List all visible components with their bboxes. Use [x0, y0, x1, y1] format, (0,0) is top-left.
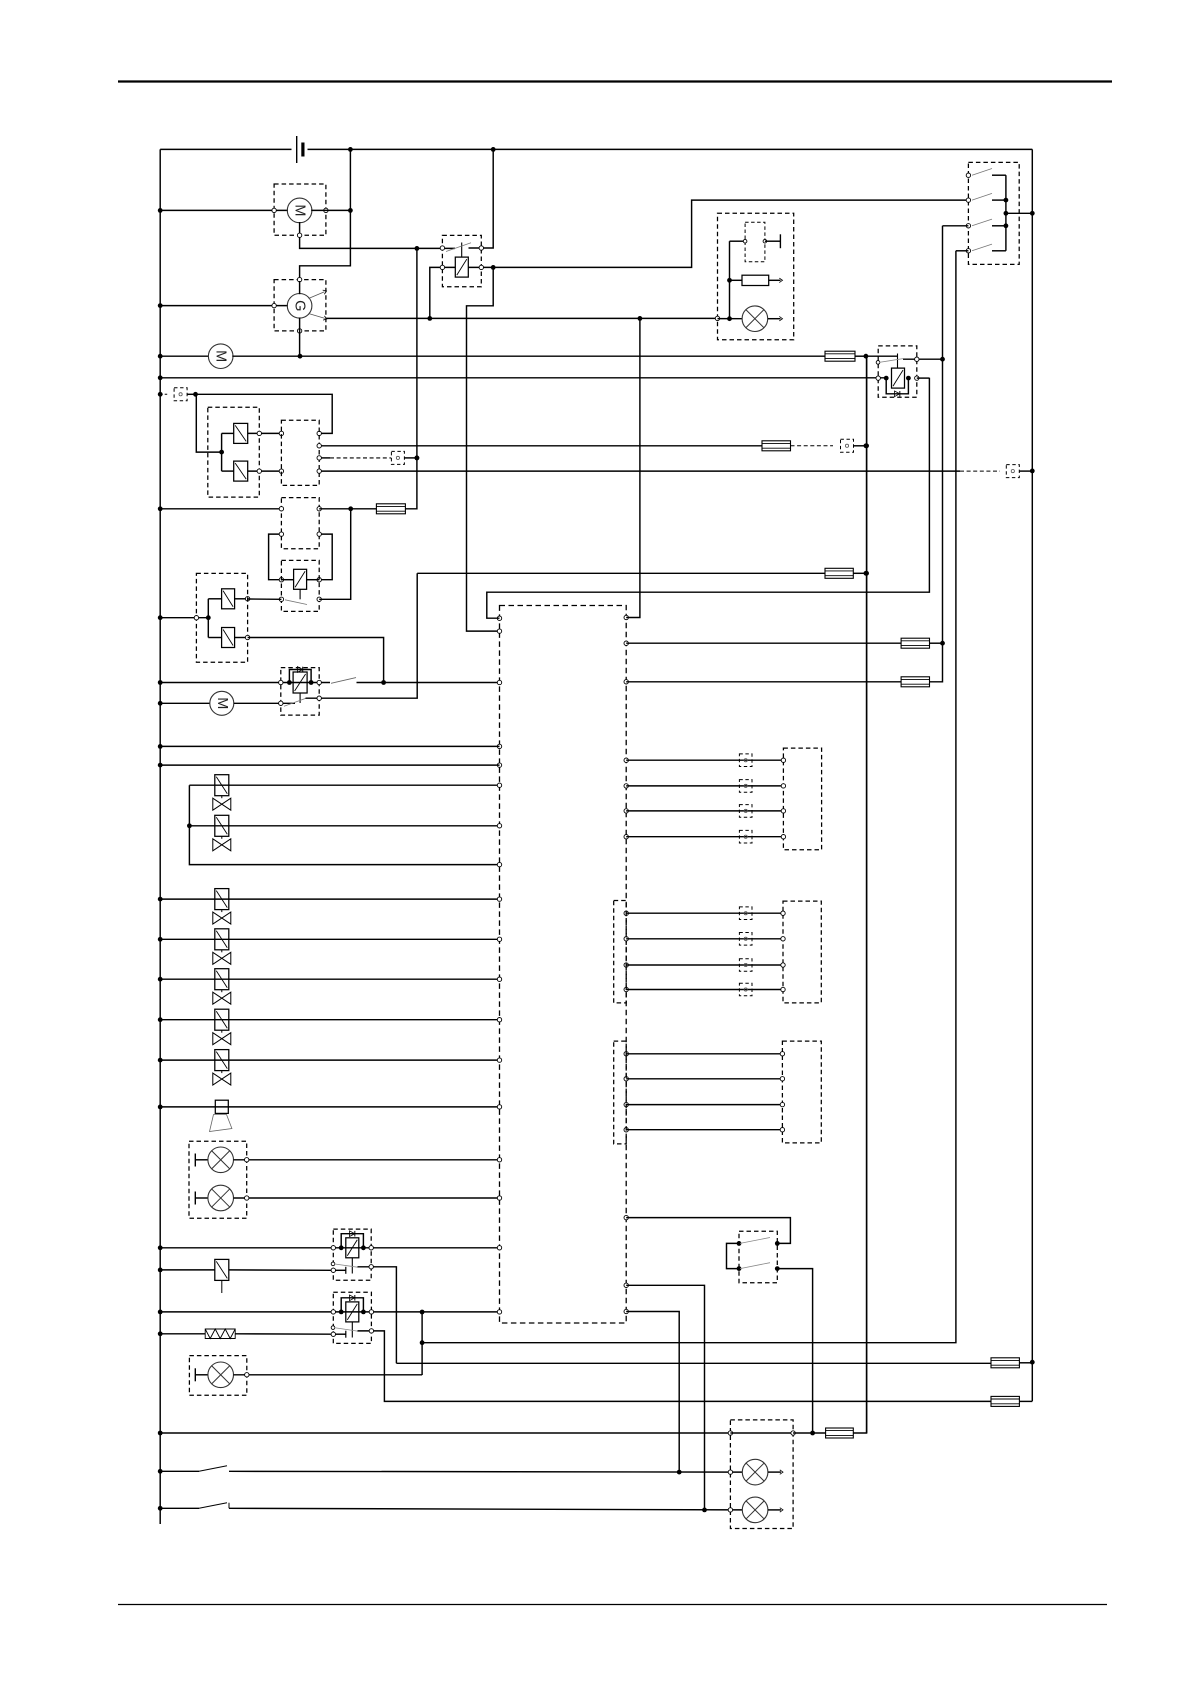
- connector X4: [1006, 465, 1019, 478]
- junction: [206, 615, 211, 620]
- wire: generator D+ to instrument panel: [326, 317, 716, 319]
- wire: feed to F4: [417, 572, 825, 574]
- connector: [739, 907, 752, 920]
- wire: horn wire: [160, 1106, 499, 1108]
- junction: [940, 641, 945, 646]
- relay K1 box: [442, 235, 481, 286]
- pin: [194, 616, 198, 620]
- wire: injector 6 wire: [160, 1019, 499, 1021]
- lamp E5: [742, 1497, 768, 1523]
- wire: switch S3 wire: [160, 1507, 199, 1509]
- wire: F7 to bus: [1019, 1362, 1032, 1364]
- lamp E4 stub: [768, 1470, 783, 1474]
- wire: K6 contact out: [358, 1331, 992, 1402]
- wire: A2 to fuse F2: [319, 508, 376, 510]
- wire: K5 out to fuse F7: [396, 1362, 991, 1364]
- instrument bus: [729, 241, 731, 319]
- lamp E4: [742, 1459, 768, 1485]
- pin: [279, 507, 321, 511]
- wire: M1 to battery bus: [311, 209, 350, 211]
- wire: E3 wire: [234, 1374, 423, 1376]
- pin: [272, 208, 328, 212]
- junction: [158, 354, 163, 359]
- ECU right pins: [624, 615, 628, 1313]
- pivot: [331, 1326, 335, 1330]
- junction: [727, 278, 732, 321]
- injector Y9: [213, 969, 231, 1005]
- pin: [781, 758, 785, 762]
- top rule: [118, 80, 1112, 82]
- solenoid Y3: [222, 589, 235, 609]
- lamp E2 ground bar: [195, 1192, 208, 1205]
- wire: ECU to brake switch: [626, 1218, 790, 1244]
- pin: [915, 357, 919, 361]
- wire: E2 to ECU: [234, 1197, 500, 1199]
- junction: [339, 1245, 366, 1250]
- wire: Y1 out: [248, 432, 282, 434]
- ECU A3 box: [500, 606, 627, 1324]
- junction: [491, 147, 496, 152]
- pin: [781, 809, 785, 813]
- wire: K1 feed drop to ECU: [467, 267, 500, 631]
- wire: F5 to vert: [930, 642, 943, 644]
- sensor B2: [215, 1259, 229, 1293]
- junction: [864, 443, 869, 575]
- wire: K3 coil right: [307, 579, 320, 581]
- pin: [728, 1470, 732, 1474]
- sensor box B3: [783, 748, 821, 850]
- connector X1: [160, 388, 187, 401]
- pivot: [876, 361, 880, 365]
- svg-text:G: G: [292, 300, 308, 311]
- junction: [638, 316, 643, 321]
- junction: [158, 506, 163, 511]
- connector: [739, 805, 752, 818]
- wire: ign feed long: [421, 1312, 423, 1375]
- wire: X1 to module top pin: [196, 394, 333, 433]
- motor M3: [210, 691, 234, 715]
- wire: group2 line 3: [626, 964, 783, 966]
- relay K1 blade: [446, 243, 471, 252]
- pin: [245, 1373, 249, 1377]
- wire: X2 tail: [854, 445, 866, 447]
- junction: [158, 1105, 163, 1110]
- pin: [369, 1329, 373, 1333]
- wire: bus to Y2: [222, 470, 234, 472]
- fuse F1: [825, 351, 855, 361]
- injector Y10: [213, 1009, 231, 1044]
- wire: A1 out 2: [319, 457, 330, 459]
- wire: dashed to X4: [960, 470, 1000, 472]
- wire: D+ drop to ECU right: [626, 318, 640, 617]
- wire: K2 contact input stub: [866, 355, 898, 357]
- injector Y6: [213, 815, 231, 851]
- wire: F8 to right bus: [1019, 1400, 1032, 1402]
- junction: [381, 680, 386, 685]
- lamp E3 ground bar: [195, 1368, 208, 1381]
- pin: [279, 680, 322, 684]
- wire: ECU input b: [160, 764, 499, 766]
- wire: K2 coil to ECU: [487, 378, 930, 618]
- relay K3 box: [281, 560, 319, 611]
- wire: bus to Y4: [208, 637, 221, 639]
- wire: K4 coil wire: [160, 682, 330, 684]
- lamp cluster box: [189, 1141, 247, 1218]
- junction: [1004, 198, 1009, 203]
- wire: A2 bottom right link: [319, 534, 332, 580]
- wire: group1 line 4: [626, 836, 783, 838]
- junction: [491, 265, 496, 270]
- wire: X4 tail: [1019, 470, 1032, 472]
- injector Y7: [213, 889, 231, 925]
- pin: [781, 911, 785, 915]
- pin: [781, 987, 785, 991]
- wire: M2 to fuse F1: [232, 355, 825, 357]
- junction: [158, 744, 163, 749]
- wire: F6 to vert: [930, 226, 943, 682]
- wire: left ground bus vertical: [159, 149, 161, 1524]
- injector Y11: [213, 1050, 231, 1086]
- junction: [158, 680, 163, 685]
- wire: K4 contact out: [306, 573, 418, 698]
- pin: [743, 239, 766, 243]
- junction: [1030, 1360, 1035, 1365]
- wire: injector 4 wire: [160, 938, 499, 940]
- fuse F7: [991, 1358, 1019, 1368]
- generator brush arrow upper: [309, 289, 328, 299]
- junction: [348, 208, 353, 213]
- junction: [158, 303, 163, 308]
- pin: [780, 1102, 784, 1106]
- wire: K3 contact in from Y3: [248, 598, 282, 600]
- relay K4 box: [281, 668, 319, 716]
- junction: [158, 392, 163, 397]
- wire: battery feed right vertical: [1031, 149, 1033, 1401]
- generator G: [287, 294, 312, 319]
- ign contact 1: [966, 169, 1006, 178]
- relay K5 coil: [346, 1238, 359, 1258]
- pin: [257, 431, 321, 435]
- wire: G top stub: [299, 281, 301, 294]
- injector Y8: [213, 929, 231, 965]
- wire: battery junction drop: [300, 149, 351, 281]
- wire: S4 out: [777, 1269, 812, 1433]
- junction: [158, 1331, 163, 1336]
- switch S4a blade: [740, 1238, 770, 1244]
- pin: [781, 937, 785, 941]
- junction: [158, 1431, 163, 1436]
- diode D1: [297, 667, 302, 673]
- diode D3: [350, 1295, 355, 1301]
- wire: lamp feed inside box: [718, 318, 743, 320]
- junction: [158, 1310, 163, 1315]
- relay K6 blade: [334, 1328, 358, 1332]
- relay K2 blade: [879, 359, 903, 363]
- junction: [864, 354, 869, 359]
- pin: [781, 835, 785, 839]
- junction: [348, 506, 353, 511]
- wire: injector bus: [189, 785, 499, 864]
- lamp box E4/E5: [730, 1420, 793, 1529]
- sensor bracket 2: [614, 901, 627, 1003]
- relay K2 armature: [897, 354, 899, 369]
- brake switch box S4: [739, 1231, 777, 1282]
- relay K3 blade: [285, 600, 307, 605]
- wire: group3 line 4: [626, 1129, 782, 1131]
- relay K5 armature: [351, 1258, 353, 1274]
- junction: [1030, 211, 1035, 216]
- wire: top battery feed horizontal: [160, 148, 1032, 150]
- wire: K5 coil wire: [160, 1247, 499, 1249]
- wire: panel lamp feed: [160, 1432, 730, 1434]
- relay K5 blade: [334, 1264, 358, 1267]
- junction: [158, 937, 163, 942]
- fuse F6: [901, 677, 929, 687]
- switch S4b blade: [740, 1263, 770, 1269]
- wire: R1 to K6: [235, 1333, 333, 1335]
- generator brush arrow lower: [309, 314, 328, 322]
- sensor bracket 3: [614, 1041, 627, 1144]
- wire: M2 feed: [160, 355, 209, 357]
- ign contact 2: [966, 193, 1006, 202]
- relay K1 coil: [455, 257, 468, 277]
- diode D2: [350, 1231, 355, 1237]
- wire: bus to gauge: [730, 240, 746, 242]
- fuse F3: [762, 441, 791, 451]
- junction: [339, 1310, 366, 1315]
- pin: [780, 1077, 784, 1081]
- fuse F9: [826, 1428, 854, 1438]
- wire: contact3 feed: [943, 225, 969, 227]
- pin: [780, 1128, 784, 1132]
- wire: S1 out: [357, 682, 500, 684]
- junction: [158, 1058, 163, 1063]
- junction: [158, 1506, 163, 1511]
- sensor box B5: [782, 1041, 821, 1143]
- wire: long wire to ignition: [422, 251, 956, 1343]
- pin: [369, 1265, 373, 1269]
- pin: [279, 701, 283, 705]
- junction: [158, 1268, 163, 1273]
- ign contact 4: [966, 244, 1006, 253]
- ECU left pins: [497, 616, 501, 1314]
- relay K2 diode loop: [886, 378, 908, 394]
- wire: injector 5 wire: [160, 978, 499, 980]
- pin: [245, 1158, 249, 1162]
- connector X3: [391, 451, 404, 464]
- relay K5 diode loop: [341, 1234, 363, 1248]
- relay K3 coil: [294, 569, 307, 589]
- wire: box3 feed: [160, 508, 281, 510]
- pin: [781, 784, 785, 788]
- junction: [677, 1470, 682, 1475]
- wire: group1 line 3: [626, 810, 783, 812]
- relay K5 box: [333, 1229, 371, 1280]
- wire: Y2 out: [248, 470, 282, 472]
- sensor A2 box: [281, 498, 319, 549]
- lamp E3: [208, 1362, 234, 1388]
- relay K6 box: [333, 1292, 371, 1343]
- wire: ECU out to F5: [626, 642, 901, 644]
- motor M2: [208, 344, 233, 369]
- junction: [864, 443, 869, 448]
- connector: [739, 780, 752, 793]
- pin: [440, 246, 444, 250]
- pin: [781, 963, 785, 967]
- pin: [245, 1196, 249, 1200]
- wire: through lamp box: [730, 1432, 793, 1434]
- wire: right bus x866: [866, 356, 868, 1433]
- control module A1 box: [281, 420, 319, 485]
- pin: [791, 1431, 795, 1435]
- wire: E6 stub: [768, 316, 783, 320]
- wire: K6 coil wire: [160, 1311, 499, 1313]
- wire: ECU out to lamp E4: [626, 1312, 679, 1473]
- wire: injector 3 wire: [160, 898, 499, 900]
- junction: [810, 1431, 815, 1436]
- junction: [415, 456, 420, 461]
- wire: R2 stub: [769, 278, 783, 282]
- junction: [158, 897, 163, 902]
- junction: [884, 376, 911, 381]
- lamp E5 stub: [768, 1508, 783, 1512]
- junction: [187, 823, 192, 828]
- sensor box B4: [783, 901, 821, 1003]
- junction: [158, 615, 163, 620]
- junction: [737, 1241, 780, 1271]
- pin: [715, 316, 719, 320]
- solenoid Y4: [222, 628, 235, 648]
- wire: Y4 to junction: [248, 638, 384, 683]
- junction: [158, 1017, 163, 1022]
- pin: [728, 1431, 732, 1435]
- bottom rule: [118, 1604, 1107, 1606]
- junction: [193, 392, 198, 397]
- generator G box: [274, 280, 326, 331]
- pin: [876, 376, 919, 380]
- lamp E3 box: [189, 1356, 246, 1396]
- wire: contact4 feed: [956, 250, 969, 252]
- wire: lampbox to fuse F9: [793, 1432, 826, 1434]
- wire: switch S2 wire: [160, 1470, 199, 1472]
- pin: [279, 597, 321, 601]
- junction: [287, 680, 314, 685]
- wire: injector 2 wire: [189, 825, 499, 827]
- connector X2: [791, 439, 854, 452]
- pin: [317, 532, 321, 582]
- junction: [158, 375, 163, 380]
- junction: [158, 763, 163, 768]
- wire: Y4 out: [235, 637, 248, 639]
- junction: [940, 357, 945, 362]
- ignition common bar: [1005, 175, 1007, 251]
- motor M1: [287, 198, 312, 223]
- wire: M3 feed: [160, 702, 210, 704]
- wire: X1 drop to coil bus: [196, 394, 222, 452]
- wire: F9 up right bus: [853, 356, 866, 1433]
- lamp E2: [208, 1185, 234, 1211]
- junction: [1030, 469, 1035, 474]
- wire: A2 bottom left link: [269, 534, 282, 580]
- pin: [317, 469, 321, 473]
- pin: [245, 597, 249, 601]
- wire: injector 1 wire: [189, 784, 499, 786]
- pin: [331, 1246, 373, 1250]
- relay K4 coil: [293, 672, 307, 693]
- pin: [317, 444, 321, 448]
- relay K4 armature: [299, 693, 301, 703]
- pin: [317, 456, 321, 460]
- wire: gauge to terminal: [765, 234, 781, 248]
- fuse F4: [825, 568, 853, 578]
- wire: M3 to K4 switch: [234, 702, 295, 704]
- switch S2 blade: [199, 1466, 227, 1472]
- wire: G supply: [160, 305, 288, 307]
- wire: group3 line 3: [626, 1104, 782, 1106]
- fuse F2: [376, 504, 405, 514]
- wire: K2 contact out: [903, 358, 943, 360]
- relay K2 coil: [892, 368, 905, 388]
- junction: [158, 1245, 163, 1250]
- motor M1 box: [274, 184, 326, 235]
- wire: A1 out 3: [319, 470, 960, 472]
- diode D4: [895, 391, 900, 397]
- relay K2 box: [878, 346, 917, 397]
- wire: X1 tail: [187, 393, 195, 395]
- wire: K1 coil left lead: [430, 267, 456, 318]
- wire: ECU input a: [160, 745, 499, 747]
- lamp E1: [208, 1147, 234, 1173]
- wire: S4 bridge: [727, 1243, 740, 1268]
- connector: [739, 754, 752, 767]
- wire: group3 line 1: [626, 1053, 782, 1055]
- ignition switch box: [968, 162, 1019, 264]
- pin: [279, 532, 283, 582]
- relay K3 armature: [299, 589, 301, 599]
- junction: [219, 450, 224, 455]
- junction: [1004, 223, 1009, 228]
- ign output wire: [1006, 212, 1032, 214]
- lamp E1 ground bar: [195, 1154, 208, 1167]
- wire: ECU out to F6: [626, 681, 901, 683]
- wire: M1 bottom lead: [300, 222, 417, 248]
- connector: [739, 959, 752, 972]
- junction: [415, 246, 420, 251]
- wire: K2 coil feed: [160, 377, 886, 379]
- wire: ECU out to lamp E5: [626, 1285, 704, 1510]
- wire: M1 supply: [160, 209, 288, 211]
- wire: group2 line 1: [626, 912, 783, 914]
- pin: [728, 1508, 732, 1512]
- wire: G bottom stub: [299, 318, 301, 357]
- junction: [158, 701, 163, 706]
- svg-text:M: M: [213, 350, 229, 362]
- solenoid Y2: [234, 461, 248, 481]
- junction: [348, 147, 353, 152]
- solenoid bus 5: [207, 599, 209, 638]
- instrument box P1: [718, 213, 794, 340]
- wire: group2 line 4: [626, 989, 783, 991]
- wire: K2 coil out: [917, 377, 930, 379]
- wire: Y3 out: [235, 598, 248, 600]
- wire: K1 to ignition switch: [493, 200, 968, 267]
- wire: bus to Y1: [222, 432, 234, 434]
- wire: injector 7 wire: [160, 1059, 499, 1061]
- lamp E6: [742, 306, 768, 332]
- pin: [479, 265, 483, 269]
- junction: [158, 1469, 163, 1474]
- svg-text:M: M: [214, 697, 230, 709]
